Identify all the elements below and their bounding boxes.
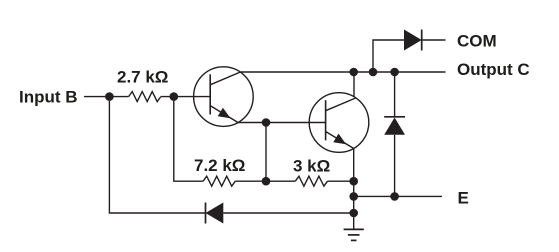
wire bottom rail right of diode — [223, 212, 353, 214]
wire Q1 collector / Output C line — [240, 71, 445, 73]
diode D3 output clamp (pointing up) — [384, 117, 405, 135]
ground — [344, 213, 364, 240]
svg-text:3 kΩ: 3 kΩ — [293, 157, 330, 176]
svg-text:7.2 kΩ: 7.2 kΩ — [194, 156, 245, 175]
wire Q2 emitter drop — [353, 148, 355, 213]
transistor Q2 — [309, 93, 369, 153]
node Q1 base junction — [170, 92, 179, 101]
wire clamp diode bottom lead — [394, 135, 396, 197]
wire E line — [354, 195, 442, 197]
node interstage junction — [262, 118, 271, 127]
svg-text:E: E — [458, 189, 469, 208]
node clamp diode top — [390, 68, 399, 77]
node E junction — [349, 192, 358, 201]
resistor R1 2.7k zigzag — [129, 92, 161, 102]
svg-text:Output C: Output C — [457, 60, 530, 79]
svg-text:COM: COM — [457, 32, 497, 51]
wire between resistors — [235, 180, 295, 182]
node resistor junction — [262, 177, 271, 186]
wire left drop from input junction — [109, 97, 205, 213]
wire COM lead right — [422, 39, 446, 41]
diode D1 input clamp (pointing left) — [206, 203, 224, 224]
resistor R3 3k zigzag — [295, 176, 327, 186]
svg-text:2.7 kΩ: 2.7 kΩ — [117, 67, 168, 86]
wire input lead — [84, 96, 129, 98]
diode D2 COM (pointing right) — [404, 30, 422, 51]
wire 3k right lead — [328, 180, 354, 182]
wire interstage (Q1 emitter to Q2 base) — [238, 122, 326, 124]
resistor R2 7.2k zigzag — [203, 176, 235, 186]
node clamp diode bottom — [390, 192, 399, 201]
node bottom rail ground junction — [349, 209, 358, 218]
node emitter rail top — [349, 177, 358, 186]
wire Q2 collector riser — [353, 72, 355, 97]
svg-text:Input B: Input B — [19, 88, 78, 107]
wire drop to 7.2k resistor — [174, 97, 203, 182]
node output junction — [349, 68, 358, 77]
wire Q1 base — [161, 96, 210, 98]
wire COM riser — [373, 40, 404, 72]
wire interstage drop — [265, 123, 267, 182]
node COM junction — [369, 68, 378, 77]
wire clamp diode top lead — [394, 72, 396, 117]
node input junction — [105, 92, 114, 101]
transistor Q1 — [194, 67, 254, 127]
